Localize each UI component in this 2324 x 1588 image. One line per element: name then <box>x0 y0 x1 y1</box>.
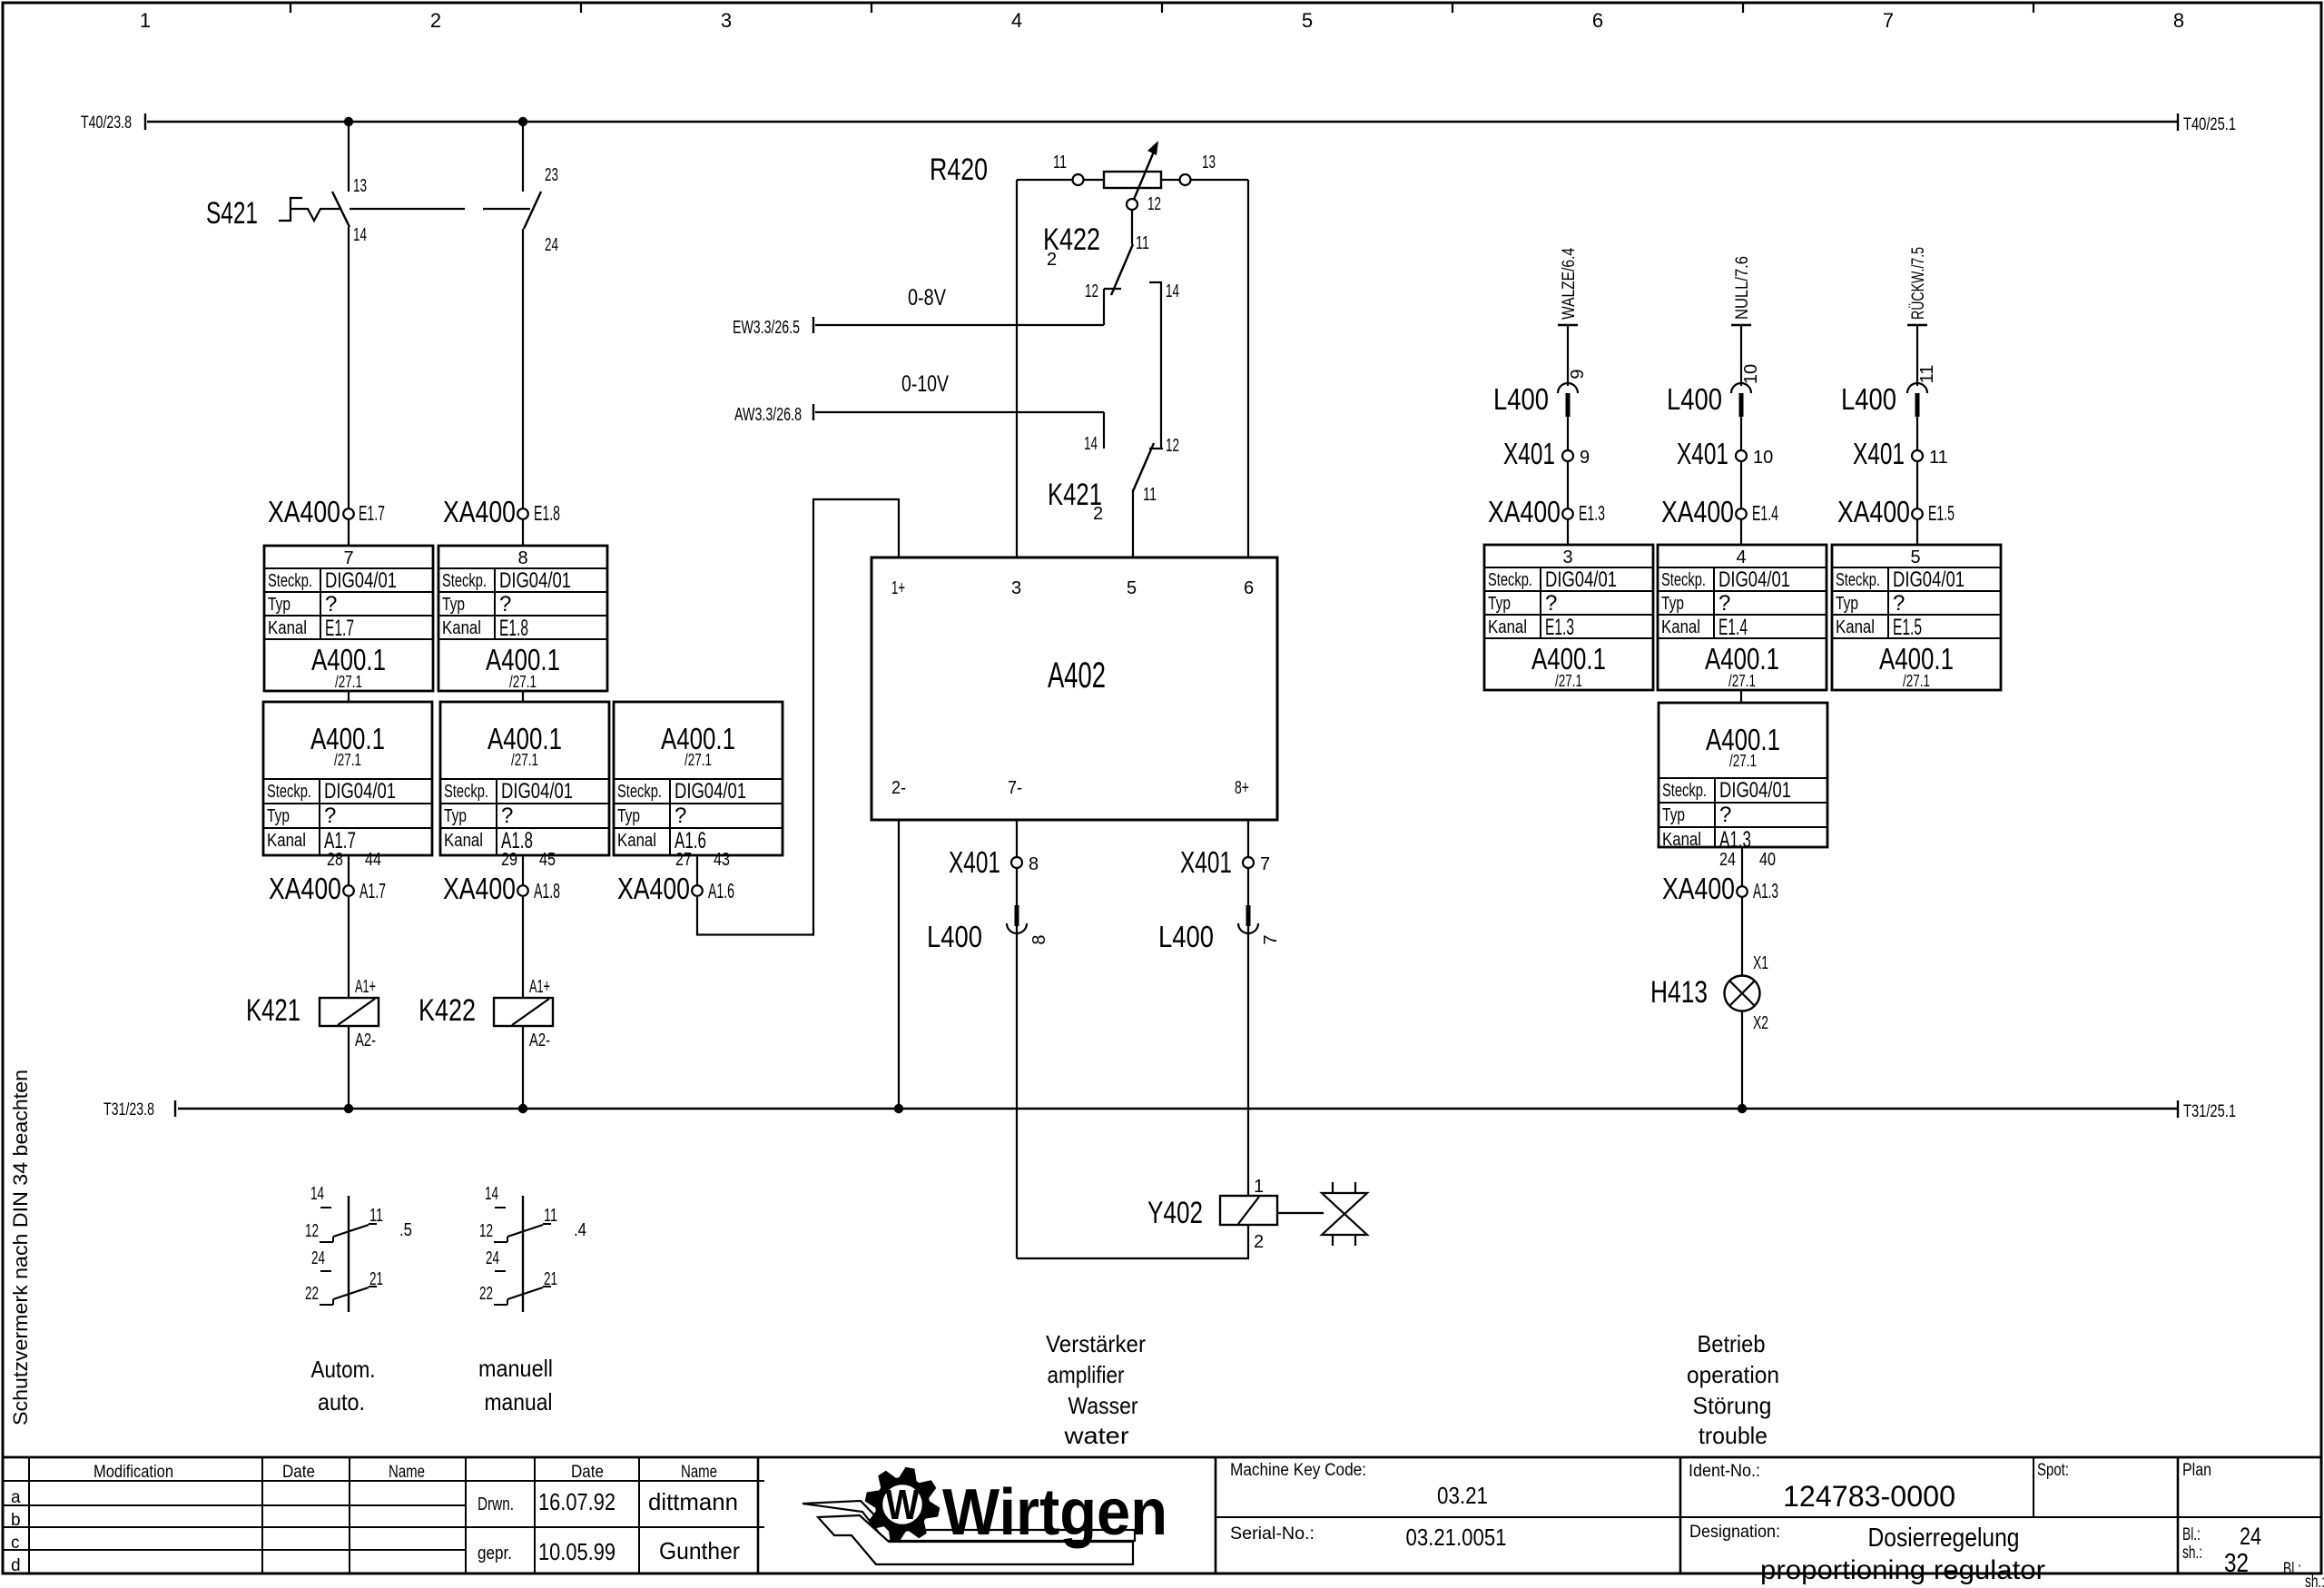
wire A402 pin 2- to T31 bus <box>898 820 900 1109</box>
wire K421 coil to T31 bus <box>348 1026 350 1109</box>
I/O table A400.1 input E1.7 (plug 7) <box>264 546 433 691</box>
svg-text:14: 14 <box>310 1184 324 1204</box>
svg-text:2: 2 <box>1254 1232 1264 1252</box>
svg-text:24: 24 <box>486 1248 499 1268</box>
svg-text:2-: 2- <box>891 778 906 798</box>
junction T31 bus / K422 coil <box>518 1104 527 1113</box>
svg-text:Steckp.: Steckp. <box>1661 570 1706 590</box>
svg-text:03.21: 03.21 <box>1437 1482 1488 1509</box>
pin labels 28/44 under A1.7 table <box>327 850 381 870</box>
svg-text:E1.4: E1.4 <box>1718 615 1748 640</box>
svg-text:12: 12 <box>1085 281 1098 301</box>
wire table A1.3 to lamp H413 <box>1741 847 1743 976</box>
junction on T40 bus at S421 contact 23 <box>518 117 527 126</box>
svg-text:DIG04/01: DIG04/01 <box>1893 567 1965 592</box>
svg-text:9: 9 <box>1568 369 1588 379</box>
svg-text:WALZE/6.4: WALZE/6.4 <box>1560 248 1579 320</box>
R420 wiper tap circle pin 12 <box>1127 194 1161 214</box>
svg-text:14: 14 <box>353 225 367 245</box>
svg-text:4: 4 <box>1736 547 1746 567</box>
svg-text:E1.3: E1.3 <box>1545 615 1574 640</box>
Wirtgen logo centre circle with W <box>881 1481 924 1528</box>
svg-text:Steckp.: Steckp. <box>1836 570 1880 590</box>
svg-text:11: 11 <box>1143 485 1157 505</box>
wire stub table7 to lower table A1.7 <box>348 691 350 702</box>
svg-text:Date: Date <box>282 1463 315 1482</box>
svg-text:Name: Name <box>681 1463 717 1482</box>
svg-text:gepr.: gepr. <box>478 1544 512 1563</box>
svg-text:T40/25.1: T40/25.1 <box>2183 115 2236 134</box>
svg-text:22: 22 <box>305 1284 319 1304</box>
svg-text:Kanal: Kanal <box>268 618 307 638</box>
svg-text:Kanal: Kanal <box>617 831 656 851</box>
svg-text:7-: 7- <box>1008 778 1022 798</box>
svg-text:24: 24 <box>2240 1523 2261 1550</box>
svg-text:8: 8 <box>1029 854 1039 874</box>
svg-text:Name: Name <box>389 1463 425 1482</box>
svg-text:Kanal: Kanal <box>1488 617 1527 637</box>
svg-text:T31/25.1: T31/25.1 <box>2183 1102 2236 1121</box>
caption manuell/manual <box>478 1355 553 1415</box>
svg-text:b: b <box>11 1511 21 1530</box>
svg-text:operation: operation <box>1687 1361 1779 1388</box>
svg-text:A400.1: A400.1 <box>311 643 386 676</box>
wire A402 pin 8+ down to Y402 <box>1247 820 1249 1196</box>
node RÜCKW./7.5 with plug L400 pin 11 <box>1907 247 1937 546</box>
svg-text:Typ: Typ <box>267 806 290 826</box>
svg-text:?: ? <box>1719 803 1731 827</box>
svg-text:?: ? <box>324 804 336 828</box>
svg-text:A1.3: A1.3 <box>1719 827 1751 853</box>
svg-text:10: 10 <box>1753 448 1773 468</box>
svg-text:K422: K422 <box>419 993 476 1028</box>
svg-text:T31/23.8: T31/23.8 <box>103 1100 154 1119</box>
title block grid <box>3 1457 2321 1573</box>
wire lamp H413 to T31 bus <box>1741 1011 1743 1109</box>
node T31 return bus (bottom) <box>103 1100 2236 1121</box>
svg-text:Steckp.: Steckp. <box>442 571 487 591</box>
I/O table A400.1 output A1.8 <box>440 702 609 855</box>
svg-text:Kanal: Kanal <box>267 831 306 851</box>
Wirtgen logo swoosh band upper <box>803 1501 1135 1541</box>
svg-text:A400.1: A400.1 <box>486 643 560 676</box>
svg-text:/27.1: /27.1 <box>1728 672 1756 690</box>
svg-text:X1: X1 <box>1753 953 1768 973</box>
relay coil K422 <box>419 977 553 1050</box>
svg-text:Date: Date <box>571 1463 604 1482</box>
potentiometer R420 <box>930 153 1248 188</box>
svg-text:14: 14 <box>1084 434 1098 454</box>
svg-text:E1.4: E1.4 <box>1752 501 1778 525</box>
title block drawn/checked entries <box>478 1488 740 1565</box>
svg-text:E1.5: E1.5 <box>1928 501 1955 525</box>
svg-text:X2: X2 <box>1753 1013 1768 1033</box>
connector XA400 pin A1.6 <box>617 872 734 905</box>
wire from table A1.8 to relay K422 coil <box>522 855 524 998</box>
svg-text:L400: L400 <box>1841 382 1896 416</box>
svg-text:23: 23 <box>545 165 558 185</box>
svg-text:11: 11 <box>1929 448 1948 468</box>
wire from table A1.7 to relay K421 coil <box>348 855 350 998</box>
connector X401 pin 10 <box>1677 437 1773 470</box>
svg-text:DIG04/01: DIG04/01 <box>324 779 396 804</box>
svg-text:A1.6: A1.6 <box>708 879 734 902</box>
svg-text:12: 12 <box>1147 194 1161 214</box>
I/O table A400.1 output A1.3 <box>1659 703 1827 853</box>
svg-text:S421: S421 <box>206 196 258 231</box>
relay coil K421 <box>246 977 379 1050</box>
svg-text:14: 14 <box>1166 281 1179 301</box>
svg-text:6: 6 <box>1592 9 1603 32</box>
pin labels 24/40 under A1.3 table <box>1719 850 1776 870</box>
connector XA400 pin A1.7 <box>269 872 386 905</box>
svg-text:14: 14 <box>485 1184 498 1204</box>
svg-text:11: 11 <box>1917 365 1937 384</box>
connector XA400 pin E1.4 <box>1661 495 1778 528</box>
svg-text:2: 2 <box>1047 250 1057 270</box>
svg-text:DIG04/01: DIG04/01 <box>325 568 397 593</box>
svg-text:Wasser: Wasser <box>1068 1392 1138 1419</box>
svg-text:1+: 1+ <box>891 578 905 598</box>
svg-text:XA400: XA400 <box>268 495 340 528</box>
svg-text:/27.1: /27.1 <box>335 673 362 691</box>
svg-text:0-8V: 0-8V <box>908 285 946 311</box>
svg-text:3: 3 <box>1011 578 1021 598</box>
svg-text:/27.1: /27.1 <box>1729 752 1757 770</box>
node T40 supply bus (top) <box>81 113 2236 134</box>
svg-text:water: water <box>1063 1422 1128 1449</box>
svg-text:/27.1: /27.1 <box>1903 672 1930 690</box>
svg-text:?: ? <box>501 804 513 828</box>
svg-text:Ident-No.:: Ident-No.: <box>1689 1462 1760 1481</box>
svg-text:Typ: Typ <box>1488 594 1511 614</box>
junction on T40 bus at S421 contact 13 <box>344 117 353 126</box>
svg-text:R420: R420 <box>930 153 988 187</box>
svg-text:Typ: Typ <box>442 595 465 615</box>
svg-text:A400.1: A400.1 <box>1879 642 1954 676</box>
wire K422 coil to T31 bus <box>522 1026 524 1109</box>
svg-text:/27.1: /27.1 <box>334 751 361 769</box>
junction T31 bus / K421 coil <box>344 1104 353 1113</box>
svg-text:manual: manual <box>485 1388 553 1415</box>
title block serial no <box>1230 1524 1507 1551</box>
switch S421 contact 23-24 <box>523 122 558 546</box>
connector XA400 pin E1.8 <box>443 495 560 528</box>
column ruler ticks and numbers <box>140 3 2184 32</box>
Y402 return wire to A402 pin 7- branch <box>1017 1225 1248 1258</box>
Wirtgen logo swoosh band lower <box>818 1515 1133 1564</box>
title block machine key code <box>1230 1461 1488 1509</box>
svg-text:Typ: Typ <box>1662 805 1685 825</box>
svg-text:E1.8: E1.8 <box>534 501 560 525</box>
I/O table A400.1 output A1.6 <box>614 702 783 855</box>
svg-text:4: 4 <box>1011 9 1022 32</box>
svg-text:10: 10 <box>1741 364 1761 384</box>
I/O table A400.1 output A1.7 <box>263 702 432 855</box>
title block headers <box>11 1463 717 1575</box>
svg-text:Gunther: Gunther <box>659 1537 740 1564</box>
wire stub table8 to lower table A1.8 <box>522 691 524 702</box>
svg-text:3: 3 <box>1562 547 1572 567</box>
svg-text:X401: X401 <box>949 845 1000 879</box>
svg-text:8: 8 <box>517 548 527 568</box>
pin labels 29/45 under A1.8 table <box>501 850 556 870</box>
svg-text:13: 13 <box>353 176 367 196</box>
svg-text:.4: .4 <box>574 1220 586 1240</box>
svg-text:03.21.0051: 03.21.0051 <box>1406 1524 1507 1551</box>
svg-text:DIG04/01: DIG04/01 <box>499 568 571 593</box>
title block spot/plan <box>2037 1461 2211 1480</box>
svg-text:1: 1 <box>140 9 151 32</box>
svg-text:auto.: auto. <box>318 1388 365 1415</box>
relay contact K421 (changeover 11-12-14) <box>1048 412 1179 557</box>
svg-text:?: ? <box>499 592 511 616</box>
connector XA400 pin E1.5 <box>1837 495 1955 528</box>
svg-text:Schutzvermerk nach DIN 34 beac: Schutzvermerk nach DIN 34 beachten <box>9 1070 32 1425</box>
svg-text:3: 3 <box>721 9 732 32</box>
contact mirror for K421 <box>305 1184 412 1312</box>
svg-text:trouble: trouble <box>1699 1422 1768 1449</box>
plug-socket L400 pin 8 <box>927 905 1049 953</box>
svg-text:7: 7 <box>1883 9 1894 32</box>
connector XA400 pin E1.3 <box>1488 495 1605 528</box>
svg-text:Kanal: Kanal <box>442 618 481 638</box>
svg-text:DIG04/01: DIG04/01 <box>675 779 746 804</box>
svg-text:Steckp.: Steckp. <box>268 571 312 591</box>
svg-text:XA400: XA400 <box>1662 872 1735 905</box>
svg-text:XA400: XA400 <box>617 872 690 905</box>
svg-text:X401: X401 <box>1677 437 1728 470</box>
svg-text:Steckp.: Steckp. <box>267 782 311 802</box>
svg-text:24: 24 <box>545 235 558 255</box>
svg-text:Serial-No.:: Serial-No.: <box>1230 1524 1315 1544</box>
svg-text:/27.1: /27.1 <box>684 751 712 769</box>
svg-text:RÜCKW./7.5: RÜCKW./7.5 <box>1909 247 1928 320</box>
svg-text:A402: A402 <box>1048 656 1106 695</box>
svg-text:/27.1: /27.1 <box>509 673 537 691</box>
svg-text:124783-0000: 124783-0000 <box>1783 1480 1955 1513</box>
svg-text:Betrieb: Betrieb <box>1698 1330 1766 1357</box>
solenoid valve coil Y402 <box>1147 1177 1277 1252</box>
svg-text:24: 24 <box>1719 850 1736 870</box>
svg-text:?: ? <box>1893 591 1905 616</box>
svg-text:DIG04/01: DIG04/01 <box>1545 567 1617 592</box>
switch S421 contact 13-14 <box>332 122 367 546</box>
svg-text:?: ? <box>675 804 686 828</box>
contact mirror for K422 <box>479 1184 586 1312</box>
svg-text:A1.3: A1.3 <box>1753 879 1778 902</box>
svg-text:12: 12 <box>1166 436 1179 456</box>
caption Verstärker amplifier Wasser water <box>1046 1330 1146 1449</box>
svg-text:Typ: Typ <box>268 595 290 615</box>
svg-text:Wirtgen: Wirtgen <box>942 1476 1167 1549</box>
wire R420 pin 11 leg to A402 pin 3 <box>1016 180 1018 557</box>
R420 wiper arrow <box>1133 141 1158 202</box>
svg-text:11: 11 <box>544 1206 557 1226</box>
svg-text:Typ: Typ <box>444 806 467 826</box>
svg-text:13: 13 <box>1202 153 1216 173</box>
svg-text:Bl.:: Bl.: <box>2182 1525 2201 1544</box>
amplifier module A402 <box>871 557 1277 820</box>
svg-text:/27.1: /27.1 <box>1555 672 1582 690</box>
svg-text:A2-: A2- <box>529 1031 550 1050</box>
svg-text:A1+: A1+ <box>529 977 550 997</box>
junction T31 bus / A402 pin 2- <box>894 1104 903 1113</box>
svg-text:E1.3: E1.3 <box>1579 501 1605 525</box>
hydraulic valve symbol <box>1277 1182 1367 1246</box>
svg-text:manuell: manuell <box>478 1355 553 1382</box>
svg-text:AW3.3/26.8: AW3.3/26.8 <box>734 405 802 425</box>
svg-text:12: 12 <box>305 1221 319 1241</box>
svg-text:8: 8 <box>1029 934 1049 944</box>
svg-text:A400.1: A400.1 <box>1531 642 1606 676</box>
svg-text:Steckp.: Steckp. <box>1488 570 1532 590</box>
svg-text:a: a <box>11 1488 21 1507</box>
svg-text:d: d <box>11 1556 21 1575</box>
S421 mechanical linkage (dashed) <box>350 208 530 210</box>
svg-text:Kanal: Kanal <box>1836 617 1875 637</box>
caption Betrieb operation Störung trouble <box>1687 1330 1779 1449</box>
svg-text:Machine Key Code:: Machine Key Code: <box>1230 1461 1366 1480</box>
svg-text:11: 11 <box>1053 153 1067 173</box>
svg-text:L400: L400 <box>1158 920 1214 953</box>
svg-text:Kanal: Kanal <box>444 831 483 851</box>
connector X401 pin 8 <box>949 845 1039 879</box>
svg-text:XA400: XA400 <box>1837 495 1910 528</box>
svg-text:L400: L400 <box>1493 382 1549 416</box>
svg-text:6: 6 <box>1244 578 1254 598</box>
svg-text:E1.8: E1.8 <box>499 616 528 641</box>
svg-text:c: c <box>11 1534 20 1553</box>
svg-text:proportioning regulator: proportioning regulator <box>1760 1555 2045 1585</box>
svg-text:21: 21 <box>544 1269 557 1289</box>
svg-text:X401: X401 <box>1180 845 1232 879</box>
svg-text:2: 2 <box>1093 504 1103 524</box>
connector XA400 pin A1.3 <box>1662 872 1778 905</box>
lamp H413 <box>1650 953 1768 1033</box>
svg-text:DIG04/01: DIG04/01 <box>1719 778 1791 803</box>
svg-text:5: 5 <box>1910 547 1920 567</box>
svg-text:32: 32 <box>2224 1549 2249 1578</box>
node NULL/7.6 with plug L400 pin 10 <box>1731 256 1761 546</box>
node AW3.3/26.8 signal 0-10V <box>734 371 1104 425</box>
svg-text:27: 27 <box>675 850 692 870</box>
svg-text:XA400: XA400 <box>443 872 516 905</box>
svg-text:A1.8: A1.8 <box>534 879 560 902</box>
svg-text:H413: H413 <box>1650 975 1708 1010</box>
svg-text:5: 5 <box>1302 9 1313 32</box>
svg-text:29: 29 <box>501 850 517 870</box>
svg-text:Steckp.: Steckp. <box>444 782 488 802</box>
switch S421 latching mechanism symbol <box>279 198 340 221</box>
junction T31 bus / lamp H413 <box>1738 1104 1747 1113</box>
svg-text:11: 11 <box>1136 233 1149 253</box>
svg-text:?: ? <box>1545 591 1557 616</box>
svg-text:XA400: XA400 <box>269 872 341 905</box>
svg-text:8: 8 <box>2173 9 2184 32</box>
svg-text:2: 2 <box>430 9 441 32</box>
svg-text:E1.5: E1.5 <box>1893 615 1922 640</box>
relay contact K422 (changeover 11-12-14) <box>1043 210 1179 449</box>
svg-text:sh.:: sh.: <box>2182 1544 2202 1563</box>
plug-socket L400 pin 7 <box>1158 905 1281 953</box>
svg-text:9: 9 <box>1580 448 1590 468</box>
caption Autom./auto. <box>311 1356 376 1415</box>
svg-text:5: 5 <box>1127 578 1137 598</box>
svg-text:Verstärker: Verstärker <box>1046 1330 1146 1357</box>
svg-text:7: 7 <box>1261 934 1281 944</box>
svg-text:XA400: XA400 <box>1488 495 1561 528</box>
svg-text:12: 12 <box>479 1221 493 1241</box>
title block ident no <box>1689 1462 1955 1513</box>
svg-text:0-10V: 0-10V <box>901 371 949 397</box>
svg-text:sh.:: sh.: <box>2305 1573 2324 1588</box>
svg-text:L400: L400 <box>927 920 982 953</box>
wire K422 terminal 14 to K421 terminal 12 <box>1160 282 1162 449</box>
svg-text:/27.1: /27.1 <box>511 751 538 769</box>
svg-text:XA400: XA400 <box>1661 495 1734 528</box>
connector XA400 pin E1.7 <box>268 495 385 528</box>
svg-text:45: 45 <box>539 850 556 870</box>
svg-text:K421: K421 <box>246 993 300 1028</box>
svg-text:Kanal: Kanal <box>1661 617 1700 637</box>
svg-text:11: 11 <box>369 1206 383 1226</box>
svg-text:7: 7 <box>1260 854 1270 874</box>
svg-text:Drwn.: Drwn. <box>478 1494 514 1514</box>
wire R420 pin 13 leg to A402 pin 6 <box>1247 180 1249 557</box>
svg-text:Designation:: Designation: <box>1689 1523 1780 1542</box>
title block sheet numbers <box>2182 1523 2324 1588</box>
svg-text:1: 1 <box>1254 1177 1264 1197</box>
connector X401 pin 7 <box>1180 845 1270 879</box>
svg-text:A2-: A2- <box>355 1031 376 1050</box>
svg-text:A1.7: A1.7 <box>359 879 386 902</box>
node EW3.3/26.5 signal 0-8V <box>733 285 1104 338</box>
svg-text:Typ: Typ <box>1661 594 1684 614</box>
svg-text:24: 24 <box>311 1248 325 1268</box>
svg-text:X401: X401 <box>1853 437 1905 470</box>
connector X401 pin 9 <box>1503 437 1590 470</box>
connector X401 pin 11 <box>1853 437 1948 470</box>
svg-text:Störung: Störung <box>1693 1392 1772 1419</box>
title block designation <box>1689 1523 2045 1585</box>
I/O table A400.1 input E1.4 (plug 4) <box>1658 545 1827 690</box>
svg-text:43: 43 <box>714 850 730 870</box>
svg-text:dittmann: dittmann <box>648 1488 738 1515</box>
svg-text:T40/23.8: T40/23.8 <box>81 113 132 133</box>
svg-text:amplifier: amplifier <box>1048 1361 1125 1388</box>
switch S421 label <box>206 196 258 231</box>
svg-text:8+: 8+ <box>1235 778 1249 798</box>
svg-text:?: ? <box>325 592 337 616</box>
svg-text:44: 44 <box>365 850 381 870</box>
svg-text:?: ? <box>1718 591 1730 616</box>
svg-text:XA400: XA400 <box>443 495 516 528</box>
svg-text:.5: .5 <box>399 1220 412 1240</box>
svg-text:Plan: Plan <box>2182 1461 2211 1480</box>
svg-text:EW3.3/26.5: EW3.3/26.5 <box>733 318 800 338</box>
Wirtgen logo gear wheel <box>875 1477 930 1532</box>
svg-text:Steckp.: Steckp. <box>1662 781 1707 801</box>
svg-text:E1.7: E1.7 <box>325 616 354 641</box>
svg-text:W: W <box>886 1481 920 1528</box>
svg-text:DIG04/01: DIG04/01 <box>501 779 573 804</box>
svg-text:16.07.92: 16.07.92 <box>538 1488 615 1515</box>
svg-text:Dosierregelung: Dosierregelung <box>1868 1524 2020 1553</box>
svg-text:Modification: Modification <box>94 1463 173 1482</box>
svg-text:7: 7 <box>343 548 353 568</box>
svg-text:40: 40 <box>1759 850 1776 870</box>
